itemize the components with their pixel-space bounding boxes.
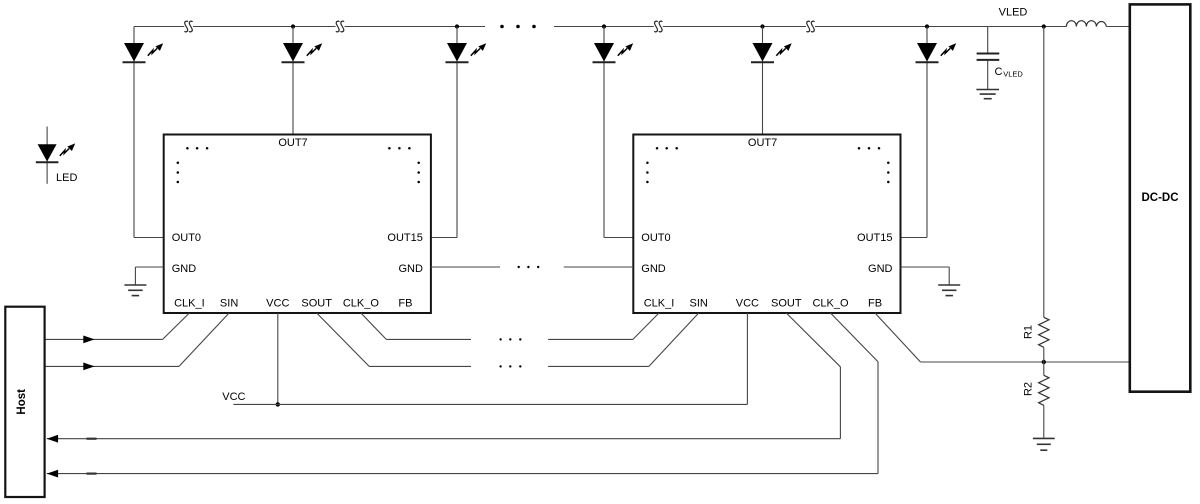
svg-text:DC-DC: DC-DC	[1141, 192, 1178, 204]
svg-text:SIN: SIN	[220, 298, 238, 310]
svg-text:VLED: VLED	[999, 7, 1028, 19]
svg-text:VLED: VLED	[1003, 70, 1023, 79]
svg-text:GND: GND	[641, 263, 666, 275]
svg-text:R2: R2	[1023, 382, 1035, 396]
svg-text:CLK_O: CLK_O	[343, 298, 380, 310]
svg-text:OUT0: OUT0	[172, 232, 201, 244]
svg-text:SOUT: SOUT	[771, 298, 802, 310]
svg-text:SIN: SIN	[690, 298, 708, 310]
svg-text:SOUT: SOUT	[301, 298, 332, 310]
svg-text:GND: GND	[398, 263, 423, 275]
svg-text:OUT15: OUT15	[857, 232, 892, 244]
svg-text:CLK_O: CLK_O	[812, 298, 849, 310]
svg-text:GND: GND	[172, 263, 197, 275]
svg-text:OUT7: OUT7	[748, 137, 777, 149]
svg-text:LED: LED	[56, 172, 77, 184]
svg-text:FB: FB	[868, 298, 882, 310]
svg-text:OUT7: OUT7	[278, 137, 307, 149]
svg-text:VCC: VCC	[736, 298, 759, 310]
svg-text:C: C	[995, 66, 1003, 78]
svg-text:CLK_I: CLK_I	[174, 298, 205, 310]
svg-text:VCC: VCC	[222, 391, 245, 403]
svg-text:GND: GND	[868, 263, 893, 275]
svg-text:VCC: VCC	[266, 298, 289, 310]
svg-text:R1: R1	[1023, 325, 1035, 339]
svg-text:CLK_I: CLK_I	[644, 298, 675, 310]
svg-text:FB: FB	[398, 298, 412, 310]
svg-text:OUT0: OUT0	[641, 232, 670, 244]
svg-text:Host: Host	[16, 389, 28, 415]
svg-text:OUT15: OUT15	[387, 232, 422, 244]
